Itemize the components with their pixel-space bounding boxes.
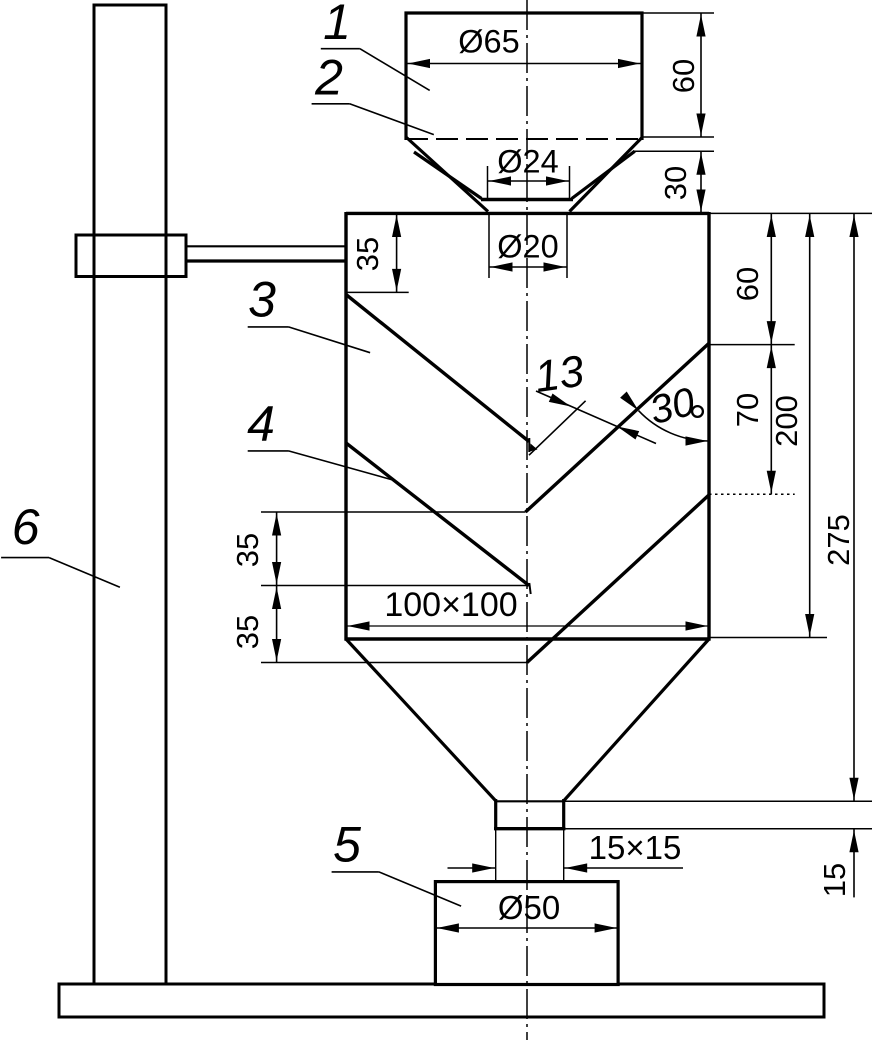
ext line box bottom right (709, 637, 827, 639)
dim 60 top line (700, 13, 702, 137)
ext line at lower-right baffle tip (261, 662, 527, 664)
bottom funnel left slope (346, 639, 496, 801)
dim 275 line (853, 213, 855, 801)
baffle plate lower-right (527, 495, 709, 662)
svg-text:60: 60 (666, 59, 701, 93)
svg-text:70: 70 (730, 393, 765, 427)
label 5 leader (332, 871, 379, 873)
svg-text:60: 60 (730, 267, 765, 301)
svg-text:35: 35 (350, 237, 385, 271)
dim 60 right line (770, 213, 772, 344)
stand column 6 (94, 5, 166, 990)
cone 2 outer left slope (414, 152, 482, 199)
dim Ø24 line (488, 180, 570, 182)
dim Ø20 ext lines (488, 214, 490, 278)
cone 2 inner left slope (407, 138, 489, 212)
svg-text:15: 15 (817, 863, 852, 897)
label 2 leader (312, 103, 350, 105)
base plate (59, 984, 824, 1017)
baffle lower-left end tick (529, 583, 530, 594)
dim 30deg degree circle (692, 406, 703, 417)
dim 35 top-left line (396, 213, 398, 292)
svg-text:200: 200 (769, 395, 804, 447)
baffle plate lower-left (346, 443, 529, 586)
svg-text:1: 1 (323, 0, 351, 50)
svg-text:15×15: 15×15 (589, 829, 682, 866)
label 6 leader (1, 557, 49, 559)
label 4 leader (248, 450, 289, 452)
bottom funnel right slope (564, 639, 709, 801)
dim 70 line (770, 345, 772, 495)
spout neck bottom edge (494, 827, 565, 830)
box 3 top plate (346, 212, 709, 215)
label 1 leader (321, 48, 360, 50)
svg-text:5: 5 (333, 817, 361, 873)
vertical centerline (526, 0, 528, 1040)
dim 100x100 line (346, 625, 709, 627)
support rod upper edge (186, 245, 346, 247)
spout neck right wall (562, 799, 565, 830)
cone 2 outer right slope (572, 151, 635, 198)
dim 13 leader line (536, 391, 656, 444)
ext line spout bottom right (565, 828, 872, 830)
dim 200 line (809, 213, 811, 637)
dim 13 gauge line parallel to baffle (529, 401, 586, 455)
top hopper 1 outline (405, 11, 644, 14)
joint line hopper/cone dashed (406, 138, 642, 140)
svg-text:Ø50: Ø50 (498, 889, 560, 926)
ext line spout top right (564, 800, 872, 802)
baffle plate upper-right (526, 343, 710, 512)
receiving cup 5 (435, 882, 618, 985)
dim 35 chain line (276, 512, 278, 663)
svg-text:Ø24: Ø24 (497, 144, 558, 180)
spout neck left wall (494, 799, 497, 830)
ext line 35 top-left (346, 291, 409, 293)
ext line cone outer right (633, 150, 714, 152)
svg-text:6: 6 (12, 499, 40, 555)
dim Ø20 line (489, 266, 567, 268)
dim 30 line (700, 151, 702, 213)
cone 2 flat bottom (481, 198, 573, 202)
dim 15x15 right line (564, 867, 683, 869)
ext line at upper-right baffle tip (261, 511, 526, 513)
ext line first baffle right (709, 344, 795, 346)
ext line box top right (709, 212, 872, 214)
dim Ø24 ext lines (487, 166, 489, 199)
dim 15x15 left line (448, 867, 496, 869)
svg-text:4: 4 (247, 396, 275, 452)
svg-text:13: 13 (532, 347, 588, 402)
ext line at lower-left baffle tip (261, 585, 529, 587)
clamp block on column (76, 235, 186, 277)
dim Ø65 line (407, 63, 641, 65)
dim 15 line below (853, 829, 855, 898)
box 3 left wall (344, 212, 347, 641)
svg-text:3: 3 (248, 272, 276, 328)
baffle plate upper-left (346, 295, 529, 442)
ext line second baffle right dotted (709, 493, 795, 495)
baffle upper-left tip wedge (530, 444, 538, 452)
svg-text:Ø65: Ø65 (458, 24, 519, 60)
spout neck top edge (496, 800, 564, 802)
svg-text:100×100: 100×100 (384, 586, 517, 624)
box 3 bottom edge (345, 637, 711, 640)
svg-text:Ø20: Ø20 (497, 229, 558, 265)
svg-text:30: 30 (658, 166, 693, 200)
svg-text:35: 35 (230, 533, 265, 567)
svg-text:275: 275 (821, 514, 856, 566)
dim 30deg arc (639, 411, 710, 441)
support rod lower edge (186, 259, 346, 262)
label 3 leader (248, 326, 289, 328)
svg-text:2: 2 (314, 50, 343, 106)
svg-text:35: 35 (230, 615, 265, 649)
dim Ø50 line (435, 927, 618, 929)
box 3 right wall (707, 212, 710, 641)
cone 2 inner right slope (570, 138, 643, 212)
ext line hopper bottom right (642, 136, 714, 138)
baffle upper-left end face (528, 438, 530, 452)
ext line top right of hopper (642, 12, 714, 14)
dim 15x15 ext lines (495, 830, 497, 881)
